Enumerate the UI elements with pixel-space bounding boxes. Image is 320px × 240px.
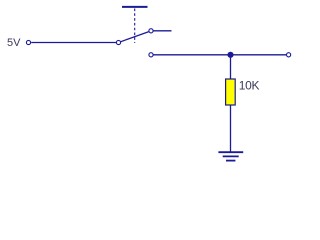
resistor R1 body	[226, 79, 236, 105]
switch SW1 lower contact	[149, 53, 153, 57]
node terminal (output pin)	[287, 53, 291, 57]
wire upper contact stub	[153, 30, 171, 32]
svg-text:10K: 10K	[239, 79, 260, 93]
wire lower contact to output terminal	[153, 54, 286, 56]
ground bar 1	[218, 151, 243, 153]
wire 5V to switch pole	[31, 42, 116, 44]
switch SW1 actuator dashed link	[134, 9, 136, 44]
switch SW1 pushbutton actuator bar	[122, 6, 148, 8]
wire junction to resistor	[230, 55, 232, 80]
switch SW1 upper contact	[149, 29, 153, 33]
wire resistor to ground	[230, 105, 232, 152]
node terminal (5V pin)	[26, 40, 30, 44]
switch SW1 lever	[121, 32, 149, 42]
ground bar 3	[226, 160, 235, 162]
junction node	[227, 52, 233, 58]
ground bar 2	[223, 155, 239, 157]
svg-text:5V: 5V	[7, 37, 21, 49]
switch SW1 pole circle	[116, 40, 120, 44]
